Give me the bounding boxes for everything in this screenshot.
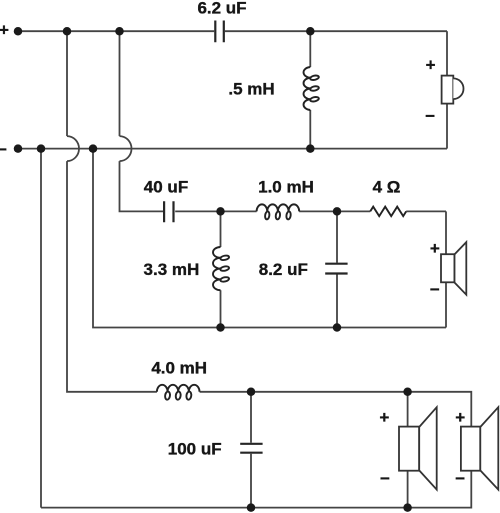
inductor L1 .5 mH (228, 67, 319, 110)
resistor R1 4 ohm (370, 177, 406, 216)
svg-text:1.0 mH: 1.0 mH (258, 177, 314, 196)
wire: branch at x=67 from + rail down to hop (66, 31, 68, 136)
wire: midrange top rail from R1 to speaker (406, 210, 446, 212)
svg-text:4 Ω: 4 Ω (373, 177, 401, 196)
node: bottom rail junction at 100 uF (247, 503, 256, 512)
capacitor C2 40 uF (144, 177, 188, 222)
node: top rail junction x=119.5 (115, 27, 124, 36)
svg-text:100 uF: 100 uF (168, 440, 222, 459)
node: midrange top junction at 3.3 mH (216, 207, 225, 216)
svg-text:+: + (426, 56, 436, 75)
node: - input terminal (14, 144, 23, 153)
wire hop: crossover of x=67 branch over minus rail (67, 136, 79, 161)
node: top rail junction x=67 (63, 27, 72, 36)
wire hop: crossover of x=119.5 branch over minus rail (120, 136, 132, 161)
node: midrange bottom junction at 8.2 uF (333, 323, 342, 332)
node: woofer top junction at 100 uF (247, 388, 256, 397)
node: woofer top junction at woofer 1 (403, 388, 412, 397)
inductor L3 3.3 mH (144, 247, 230, 290)
wire: branch x=93 from minus rail down to midrange bottom rail (93, 149, 446, 328)
svg-text:+: + (0, 20, 9, 39)
svg-text:−: − (425, 106, 435, 125)
svg-text:6.2 uF: 6.2 uF (197, 0, 246, 17)
inductor L4 4.0 mH (151, 359, 207, 400)
node: minus rail junction x=93 (89, 144, 98, 153)
wire: .5 mH shunt branch leads (309, 31, 311, 148)
wire: 100 uF shunt branch (250, 392, 252, 508)
midrange speaker SP2 (430, 239, 466, 299)
wire: bottom rail to woofer 2 return (41, 471, 471, 508)
node: midrange top junction at 8.2 uF (333, 207, 342, 216)
wire: top (+) rail from input to capacitor C1 (18, 30, 214, 32)
wire: woofer top rail from 4.0 mH to woofer 2 (200, 392, 472, 427)
svg-text:−: − (430, 280, 440, 299)
woofer SP3 (379, 407, 436, 489)
svg-text:8.2 uF: 8.2 uF (259, 260, 308, 279)
svg-text:+: + (455, 408, 465, 427)
wire: woofer 1 branch (407, 392, 409, 508)
svg-text:−: − (455, 469, 465, 488)
svg-text:+: + (379, 408, 389, 427)
wire: x=119.5 branch from hop down to midrange section, corner to 40 uF (120, 161, 164, 211)
node: minus rail junction at .5 mH (306, 144, 315, 153)
wire: 3.3 mH shunt branch (220, 211, 222, 327)
wire: x=67 branch from hop down to woofer section, corner to 4.0 mH (67, 161, 157, 392)
wire: midrange right side drop (445, 211, 447, 327)
capacitor C1 6.2 uF (197, 0, 246, 42)
node: top rail junction at .5 mH (306, 27, 315, 36)
node: bottom rail junction at woofer 1 (403, 503, 412, 512)
svg-text:−: − (0, 140, 7, 159)
svg-text:3.3 mH: 3.3 mH (144, 260, 200, 279)
wire: tweeter right side drop (446, 31, 448, 148)
tweeter SP1 (425, 56, 463, 126)
wire: 8.2 uF shunt branch (336, 211, 338, 327)
svg-text:40 uF: 40 uF (144, 177, 188, 196)
node: + input terminal (14, 27, 23, 36)
wire: minus rail (18, 148, 447, 150)
svg-text:+: + (430, 239, 440, 258)
wire: midrange top rail from 40 uF to 1.0 mH (175, 210, 256, 212)
woofer SP4 (455, 407, 498, 489)
capacitor C4 100 uF (168, 440, 263, 459)
svg-text:4.0 mH: 4.0 mH (151, 359, 207, 378)
wire: branch at x=119.5 from + rail down to hop (119, 31, 121, 136)
svg-text:−: − (380, 469, 390, 488)
svg-text:.5 mH: .5 mH (228, 80, 274, 99)
inductor L2 1.0 mH (257, 177, 314, 219)
wire: left return branch x=41 from minus rail down to bottom rail (40, 149, 42, 508)
wire: midrange top rail from 1.0 mH to resistor R1 (299, 210, 370, 212)
capacitor C3 8.2 uF (259, 260, 348, 279)
wire: top rail from capacitor C1 to tweeter (225, 30, 447, 32)
node: midrange bottom junction at 3.3 mH (216, 323, 225, 332)
node: minus rail junction x=41 (37, 144, 46, 153)
